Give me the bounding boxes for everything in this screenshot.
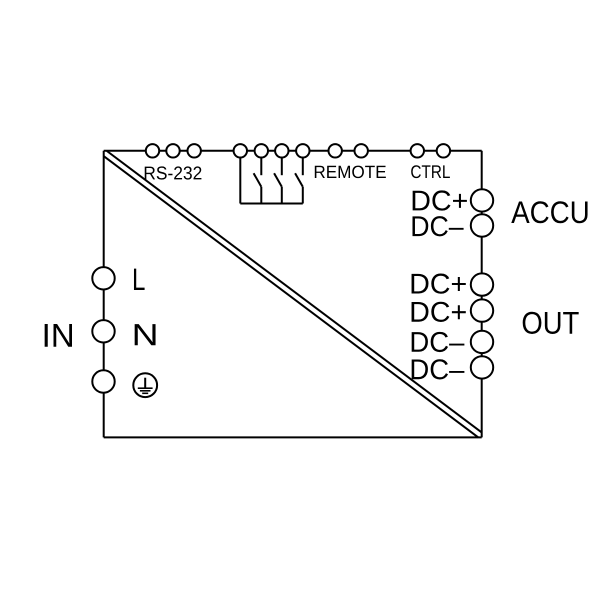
label OUT DC+ 1: [412, 274, 466, 294]
switch S2 blade: [274, 173, 282, 187]
label OUT: [523, 312, 579, 334]
terminal L input: [92, 267, 114, 289]
label REMOTE: [315, 166, 386, 179]
wire top edge of module: [104, 150, 482, 152]
terminal RS-232 pin 2: [166, 144, 179, 157]
terminal CTRL pin 2: [437, 144, 450, 157]
terminal ACCU DC+: [471, 189, 493, 211]
label OUT DC+ 2: [412, 302, 466, 322]
terminal OUT DC+ 2: [471, 299, 493, 321]
label RS-232: [145, 166, 202, 179]
wire bottom edge of module: [104, 436, 482, 438]
wire left edge of module (L/N/PE input rail): [103, 151, 105, 438]
label N: [135, 324, 156, 345]
label OUT DC- 2: [412, 359, 465, 379]
switch S2 drop: [281, 187, 283, 204]
terminal RS-232 pin 1: [146, 144, 159, 157]
switch S2 stub: [281, 158, 283, 176]
terminal N input: [92, 320, 114, 342]
wire remote switch left drop: [239, 158, 241, 204]
switch S1 blade: [254, 173, 262, 187]
switch S1 stub: [260, 158, 262, 176]
label L: [134, 269, 145, 290]
switch S3 stub: [302, 158, 304, 176]
wire right edge of module (DC output rail): [481, 151, 483, 438]
terminal OUT DC- 1: [471, 331, 493, 353]
terminal REMOTE switch pin 3: [275, 144, 288, 157]
terminal ACCU DC-: [471, 214, 493, 236]
label CTRL: [411, 165, 450, 178]
terminal REMOTE pin 5: [329, 144, 342, 157]
switch S3 drop: [302, 187, 304, 204]
wire diagonal lower line: [104, 156, 479, 437]
terminal OUT DC+ 1: [471, 273, 493, 295]
terminal CTRL pin 1: [411, 144, 424, 157]
switch S3 blade: [295, 173, 303, 187]
terminal PE input: [92, 370, 114, 392]
terminal REMOTE pin 6: [355, 144, 368, 157]
label OUT DC- 1: [412, 332, 465, 352]
terminal REMOTE switch pin 2: [255, 144, 268, 157]
wire diagonal upper line: [107, 151, 482, 432]
switch S1 drop: [260, 187, 262, 204]
label IN: [45, 324, 72, 347]
label ACCU DC-: [412, 216, 463, 236]
terminal RS-232 pin 3: [188, 144, 201, 157]
terminal REMOTE switch pin 1: [234, 144, 247, 157]
terminal REMOTE switch pin 4: [296, 144, 309, 157]
wire remote switch bottom rail: [240, 203, 302, 205]
terminal OUT DC- 2: [471, 356, 493, 378]
ground protective earth symbol: [133, 373, 157, 397]
label ACCU DC+: [413, 190, 467, 210]
label ACCU: [511, 201, 587, 223]
